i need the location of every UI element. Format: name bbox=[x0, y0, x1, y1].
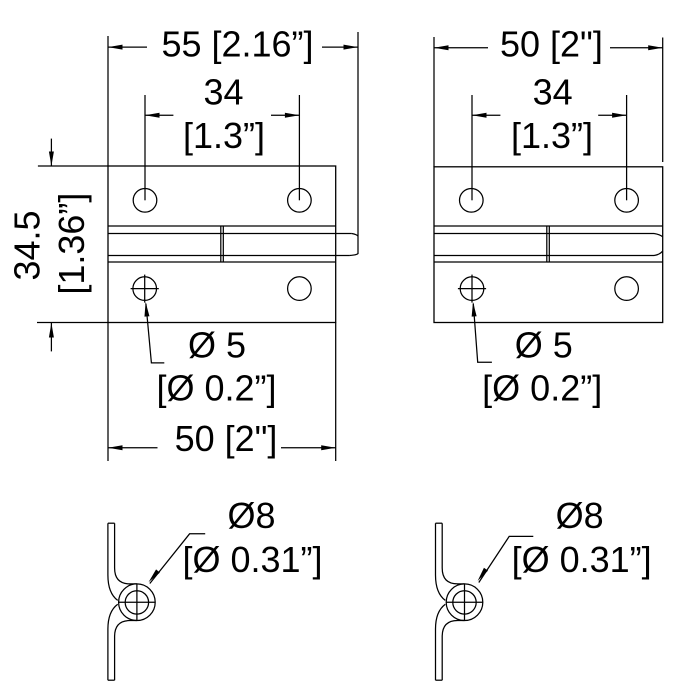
dim 50 hinge 2 extension lines bbox=[434, 37, 663, 167]
dim 50 hinge 1 extension lines bbox=[108, 323, 336, 462]
hinge 1 hole bottom-right bbox=[288, 277, 312, 301]
svg-text:[Ø 0.31”]: [Ø 0.31”] bbox=[182, 539, 322, 580]
side view left: upper strip bbox=[108, 523, 137, 600]
svg-text:50 [2"]: 50 [2"] bbox=[500, 23, 603, 64]
svg-text:34.5: 34.5 bbox=[7, 210, 48, 280]
dim 34 hinge 2 dimension line bbox=[472, 113, 627, 118]
hinge 1 hole bottom-left bbox=[131, 275, 159, 303]
dim 50 hinge 2 dimension line bbox=[434, 45, 663, 50]
svg-text:Ø 5: Ø 5 bbox=[188, 325, 246, 366]
svg-text:55 [2.16”]: 55 [2.16”] bbox=[161, 23, 313, 64]
side view left dia 8 leader bbox=[147, 534, 206, 584]
hinge 1 knuckle joint double line bbox=[221, 226, 224, 262]
svg-text:34: 34 bbox=[533, 71, 573, 112]
side view right: upper strip bbox=[436, 523, 465, 600]
svg-text:34: 34 bbox=[203, 71, 243, 112]
side view right: crosshair bbox=[446, 584, 483, 620]
dim 34.5 dimension lines and arrows bbox=[49, 139, 54, 352]
hinge 1 knuckle lines bbox=[108, 226, 352, 262]
hinge 2 hole top-right bbox=[615, 189, 639, 213]
side view left: curl inner circle bbox=[125, 591, 148, 614]
hinge 2 pin tip bbox=[654, 234, 663, 256]
svg-text:[1.36”]: [1.36”] bbox=[51, 193, 92, 295]
dim 50 hinge 1 dimension line bbox=[108, 445, 336, 450]
svg-text:Ø 5: Ø 5 bbox=[515, 325, 573, 366]
hinge 1 hole top-left bbox=[133, 189, 157, 213]
side view left: curl outer circle bbox=[119, 584, 156, 621]
hinge 2 hole bottom-right bbox=[615, 277, 639, 301]
svg-text:Ø8: Ø8 bbox=[556, 495, 604, 536]
dim 55 dimension line bbox=[108, 45, 358, 50]
dim 34 hinge 2 extension lines bbox=[472, 95, 627, 200]
svg-text:[Ø 0.31”]: [Ø 0.31”] bbox=[512, 539, 652, 580]
svg-text:50 [2"]: 50 [2"] bbox=[175, 418, 278, 459]
side view right dia 8 leader bbox=[476, 536, 534, 582]
hinge 2 leaf outline bbox=[434, 167, 663, 323]
hinge 1 leaf outline bbox=[108, 166, 336, 323]
svg-text:[Ø 0.2”]: [Ø 0.2”] bbox=[156, 368, 276, 409]
hinge 1 bottom edge extension (34.5 dim) bbox=[37, 322, 108, 324]
hinge 1 hole top-right bbox=[288, 189, 312, 213]
hinge 2 knuckle lines bbox=[434, 226, 663, 262]
dim 34 hinge 1 extension lines bbox=[145, 95, 299, 200]
side view right: curl inner circle bbox=[453, 591, 476, 614]
hinge 1 pin tip bbox=[349, 234, 358, 256]
svg-text:[1.3”]: [1.3”] bbox=[511, 115, 593, 156]
dim 55 extension lines bbox=[108, 32, 358, 236]
hinge 1 top edge extension (34.5 dim) bbox=[38, 165, 108, 167]
side view right: lower strip bbox=[436, 604, 465, 680]
hinge 2 hole bottom-left bbox=[458, 275, 486, 303]
side view right: curl outer circle bbox=[446, 584, 483, 621]
hinge 1 dia 5 leader bbox=[143, 302, 164, 363]
dim 34 hinge 1 dimension line bbox=[145, 113, 299, 118]
svg-text:[Ø 0.2”]: [Ø 0.2”] bbox=[482, 368, 602, 409]
svg-text:Ø8: Ø8 bbox=[227, 495, 275, 536]
side view left: crosshair bbox=[118, 584, 155, 620]
side view left: lower strip bbox=[108, 604, 137, 680]
svg-text:[1.3”]: [1.3”] bbox=[183, 115, 265, 156]
hinge 2 hole top-left bbox=[460, 189, 484, 213]
hinge 2 knuckle joint double line bbox=[547, 226, 550, 262]
hinge 2 dia 5 leader bbox=[471, 302, 492, 362]
